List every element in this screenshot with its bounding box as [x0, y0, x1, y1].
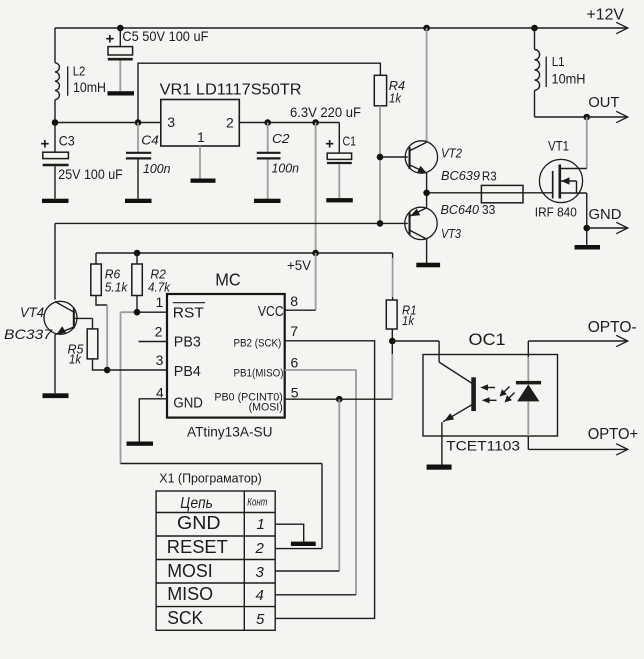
- node MOSI junction: [336, 396, 343, 403]
- svg-text:100n: 100n: [143, 161, 171, 176]
- wire MOSI drop: [338, 399, 340, 571]
- wire RST net: [121, 311, 138, 313]
- wire VT2 base node to VT3 base node: [379, 157, 381, 223]
- resistor R3: [481, 185, 523, 202]
- ground VT4: [43, 393, 69, 398]
- wire VCC pin8: [315, 253, 317, 310]
- wire GND arrow: [587, 227, 627, 229]
- svg-text:GND: GND: [177, 513, 221, 533]
- svg-text:BC640: BC640: [441, 202, 480, 217]
- node VT2 base junction: [377, 154, 384, 161]
- svg-text:MC: MC: [215, 270, 241, 290]
- X1 header separator: [156, 512, 275, 514]
- node R2 bottom on RST: [134, 309, 141, 316]
- svg-text:C4: C4: [141, 133, 159, 148]
- wire VT2 collector riser: [426, 28, 428, 143]
- svg-text:OC1: OC1: [469, 330, 506, 349]
- svg-text:10mH: 10mH: [552, 71, 586, 87]
- capacitor C5: [108, 28, 133, 91]
- svg-text:VT3: VT3: [441, 226, 462, 241]
- node C5 top junction: [117, 25, 124, 32]
- wire emitters junction through R3 to VT1 gate: [427, 192, 553, 194]
- node VT3 base junction: [377, 220, 384, 227]
- wire VT4 collector riser: [54, 223, 56, 299]
- wire OUT arrow: [587, 116, 627, 118]
- svg-text:33: 33: [482, 202, 496, 217]
- svg-text:5: 5: [256, 611, 265, 628]
- svg-text:Конт: Конт: [247, 496, 267, 508]
- svg-text:1: 1: [197, 129, 205, 145]
- wire pin5 riser to R1 node: [391, 354, 393, 399]
- inductor L2: [55, 28, 68, 123]
- node L1 top junction: [531, 25, 538, 32]
- ground C3: [42, 199, 69, 203]
- wire RST down: [120, 312, 122, 463]
- svg-text:8: 8: [290, 293, 298, 309]
- capacitor C4: [126, 123, 151, 199]
- ground VT1: [575, 245, 601, 250]
- svg-text:C1: C1: [343, 134, 357, 149]
- OC1 LED: [516, 341, 541, 449]
- node 5V drop junction: [312, 119, 319, 126]
- X1 column divider: [243, 491, 245, 630]
- +12V arrowhead: [616, 22, 628, 33]
- resistor R1: [386, 253, 397, 341]
- svg-text:(MOSI): (MOSI): [249, 402, 283, 414]
- svg-text:1: 1: [156, 294, 164, 310]
- wire RESET riser: [321, 464, 323, 549]
- svg-text:3: 3: [156, 352, 164, 368]
- svg-text:5: 5: [291, 384, 299, 400]
- svg-text:+12V: +12V: [587, 7, 625, 24]
- resistor R2: [132, 253, 143, 312]
- svg-text:1k: 1k: [69, 351, 82, 366]
- light arrow 2: [482, 397, 497, 403]
- light flash arrow 1: [500, 387, 510, 397]
- wire upper feed to R4: [138, 63, 380, 122]
- svg-text:6.3V 220 uF: 6.3V 220 uF: [290, 104, 361, 120]
- svg-text:VT4: VT4: [20, 304, 44, 320]
- chip MC box: [167, 294, 285, 418]
- svg-text:TCET1103: TCET1103: [446, 437, 520, 453]
- svg-text:1k: 1k: [402, 313, 415, 328]
- svg-text:OUT: OUT: [588, 94, 619, 111]
- OPTO+ arrowhead: [616, 444, 628, 455]
- svg-text:+: +: [325, 136, 334, 153]
- inductor L1: [535, 28, 547, 117]
- svg-text:+5V: +5V: [287, 257, 312, 273]
- svg-text:C5 50V 100 uF: C5 50V 100 uF: [122, 28, 208, 44]
- wire output rail: [239, 122, 339, 124]
- svg-text:MISO: MISO: [167, 584, 213, 604]
- label RST overline: [173, 302, 205, 304]
- svg-text:L1: L1: [552, 54, 565, 69]
- node GND junction: [583, 225, 590, 232]
- wire OPTO+: [528, 448, 627, 450]
- wire pin5 PB0: [285, 398, 393, 400]
- ground C5: [108, 91, 135, 95]
- connector X1 table frame: [156, 491, 275, 630]
- node C4 junction: [135, 119, 142, 126]
- svg-text:MOSI: MOSI: [167, 561, 213, 581]
- transistor VT4: [44, 301, 93, 393]
- wire VR1 pin1 to ground: [199, 146, 201, 179]
- svg-text:VR1 LD1117S50TR: VR1 LD1117S50TR: [160, 82, 302, 99]
- ground X1: [291, 542, 316, 546]
- svg-text:4: 4: [256, 587, 264, 604]
- wire GND node to ground: [586, 228, 588, 245]
- svg-text:6: 6: [291, 354, 299, 370]
- wire X1 pin1 to ground: [275, 524, 304, 541]
- svg-text:5.1k: 5.1k: [105, 280, 129, 295]
- node OUT junction: [583, 114, 590, 121]
- X1 row line 4: [156, 606, 275, 608]
- node L2/C3 junction: [52, 119, 59, 126]
- X1 row line 1: [156, 535, 275, 537]
- svg-text:Цепь: Цепь: [180, 495, 213, 512]
- svg-text:+: +: [106, 31, 115, 48]
- wire MOSI to table: [275, 570, 339, 572]
- capacitor C2: [257, 123, 281, 199]
- light flash arrow 2: [505, 393, 515, 403]
- svg-text:2: 2: [155, 323, 163, 339]
- node VT2 collector rail junction: [423, 25, 430, 32]
- ground C4: [125, 199, 152, 203]
- node 5V drop on rail: [312, 250, 319, 257]
- wire main input rail: [55, 122, 161, 124]
- svg-text:VT2: VT2: [441, 146, 463, 161]
- wire MISO to table: [275, 594, 356, 596]
- svg-text:L2: L2: [73, 64, 86, 79]
- node R1 bottom junction: [389, 338, 396, 345]
- wire L1 to OUT node: [535, 116, 587, 118]
- svg-text:OPTO-: OPTO-: [588, 319, 637, 336]
- wire OPTO-: [528, 340, 627, 342]
- light arrow 1: [480, 384, 495, 390]
- svg-text:C2: C2: [272, 131, 290, 146]
- svg-text:+: +: [41, 136, 50, 153]
- svg-text:RESET: RESET: [167, 537, 228, 557]
- wire pin7 SCK: [275, 341, 374, 619]
- svg-text:PB3: PB3: [174, 334, 201, 351]
- ground C2: [254, 199, 281, 203]
- node C2 junction: [264, 119, 271, 126]
- transistor VT3: [380, 193, 437, 263]
- X1 row line 2: [156, 559, 275, 561]
- OC1 phototransistor: [439, 341, 476, 465]
- svg-text:1: 1: [257, 516, 265, 533]
- GND arrowhead: [616, 222, 628, 233]
- ground VR1: [191, 179, 216, 183]
- svg-text:X1 (Програматор): X1 (Програматор): [159, 471, 261, 486]
- svg-text:C3: C3: [59, 132, 75, 148]
- transistor VT1 MOSFET: [539, 159, 586, 202]
- ground OC1: [427, 465, 452, 470]
- wire PB3 stub: [139, 341, 168, 343]
- wire pin6 MISO: [285, 370, 356, 595]
- node VT2/VT3 emitter junction: [423, 190, 430, 197]
- node R2 top junction: [134, 250, 141, 257]
- capacitor C3: [43, 123, 69, 199]
- svg-text:GND: GND: [589, 206, 622, 223]
- OPTO- arrowhead: [616, 335, 628, 346]
- ground C1: [326, 198, 353, 202]
- wire +5V rail: [96, 252, 393, 254]
- svg-text:3: 3: [256, 564, 265, 581]
- wire PB4 net: [107, 369, 167, 371]
- svg-text:10mH: 10mH: [73, 79, 106, 95]
- svg-text:VT1: VT1: [548, 138, 569, 154]
- wire R1 node to OC1: [392, 340, 439, 342]
- wire +12V top rail: [55, 27, 627, 29]
- wire R4 to VT2 base: [379, 106, 381, 157]
- svg-text:PB1(MISO): PB1(MISO): [234, 367, 284, 379]
- svg-text:BC639: BC639: [441, 168, 480, 183]
- svg-text:SCK: SCK: [167, 608, 203, 628]
- wire OUT to VT1 drain: [586, 117, 588, 169]
- svg-text:4.7k: 4.7k: [148, 280, 171, 295]
- svg-text:BC337: BC337: [4, 326, 53, 342]
- ground MC: [127, 442, 154, 446]
- optocoupler OC1 box: [423, 355, 558, 437]
- svg-text:2: 2: [255, 540, 265, 557]
- regulator VR1 box: [161, 100, 240, 147]
- wire VT1 source down: [586, 193, 588, 228]
- ground VT3: [416, 263, 440, 268]
- wire bases rail: [55, 222, 380, 224]
- resistor R6: [91, 253, 107, 370]
- OUT arrowhead: [616, 111, 628, 122]
- resistor R4: [374, 75, 386, 106]
- svg-text:PB4: PB4: [174, 363, 201, 380]
- transistor VT2: [380, 141, 438, 193]
- svg-text:1k: 1k: [389, 90, 402, 105]
- svg-text:100n: 100n: [272, 161, 300, 176]
- svg-text:IRF 840: IRF 840: [535, 205, 577, 220]
- capacitor C1: [327, 123, 352, 199]
- svg-text:PB2 (SCK): PB2 (SCK): [234, 338, 282, 350]
- svg-text:2: 2: [226, 115, 234, 131]
- svg-text:ATtiny13A-SU: ATtiny13A-SU: [187, 424, 273, 440]
- svg-text:OPTO+: OPTO+: [588, 426, 639, 443]
- svg-text:R3: R3: [482, 169, 497, 184]
- svg-text:3: 3: [167, 114, 175, 130]
- svg-text:7: 7: [290, 323, 298, 339]
- wire MC GND pin to ground: [139, 399, 167, 442]
- resistor R5: [87, 318, 107, 370]
- wire 5V to VCC drop: [315, 123, 317, 254]
- wire RST across: [121, 463, 323, 465]
- wire X1 pin2 RESET: [275, 548, 322, 550]
- svg-text:VCC: VCC: [258, 303, 284, 320]
- svg-text:RST: RST: [173, 304, 204, 321]
- X1 row line 3: [156, 582, 275, 584]
- svg-text:GND: GND: [173, 394, 203, 411]
- svg-text:25V 100 uF: 25V 100 uF: [58, 166, 123, 182]
- node R5/R6 junction: [104, 367, 111, 374]
